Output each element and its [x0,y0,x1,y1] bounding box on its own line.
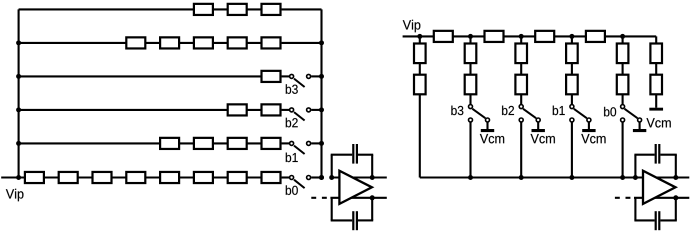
resistor (row 5, #4) [262,138,281,149]
resistor (row 2, #3) [194,37,213,48]
wire: termination branch down [655,36,657,107]
switch b1: right contact [307,141,311,145]
switch b3: lever [294,79,305,87]
resistor (branch b0, lower) [617,75,629,95]
op-amp U2: dashed inverting input line [615,197,620,199]
wire: branch b0 vertical [622,36,624,105]
label b0 [286,185,298,195]
switch b2: common contact [519,105,523,109]
wire: b1 Vcm stem [588,122,590,129]
switch b3: left contact [290,74,294,78]
label b2 [286,118,298,128]
capacitor (bottom feedback, U1): right wire [358,219,373,221]
resistor (row 2, #2) [160,37,179,48]
capacitor (top feedback, U1): left wire [331,155,333,178]
resistor (branch b3, lower) [465,75,477,95]
resistor (termination branch, lower) [650,75,662,95]
wire: switch b2 to right bus [311,109,321,111]
capacitor (bottom feedback, U1): plates [352,211,354,230]
label b3 [286,84,298,94]
wire: row to right bus [282,8,322,10]
switch b3: common contact [469,105,473,109]
label Vcm (b2) [531,134,555,143]
junction: top rail branch 3 [519,34,524,39]
resistor (row 1, #3) [262,4,281,15]
switch b3: output contact [469,118,473,122]
op-amp U2: triangle [643,171,676,204]
switch b2: lever [294,112,305,120]
wire: b0 Vcm stem [639,122,641,129]
junction: top rail branch 4 [569,34,574,39]
switch b2: output contact [519,118,523,122]
label b2 [502,106,514,116]
resistor (row 4, #1) [228,104,247,115]
switch b0: output contact [621,118,625,122]
junction: left bus row 5 [16,141,21,146]
resistor (row 5, #2) [194,138,213,149]
wire: top rail [403,35,657,37]
wire: switch b0 to right bus [311,176,321,178]
wire: row 1 rail [19,8,282,10]
label b3 [451,106,463,116]
junction: right bus to U1 input [319,175,324,180]
junction: top rail branch 5 [620,34,625,39]
label Vip (left circuit input) [6,189,24,201]
junction: U2 top output tap [673,175,678,180]
wire: switch b3 to right bus [311,75,321,77]
resistor (row 6, #2) [59,172,78,183]
junction: left bus row 4 [16,107,21,112]
op-amp U2: top output/input line [634,176,689,178]
label Vcm (b0) [646,118,670,127]
op-amp U1: dashed inverting input line [311,197,316,199]
junction: U1 bottom output tap [370,195,375,200]
op-amp U1: triangle [339,171,372,204]
capacitor (bottom feedback, U2): plates [655,211,657,230]
switch b0: common contact [621,105,625,109]
resistor (series R, #1) [434,31,453,42]
resistor (row 4, #2) [262,104,281,115]
switch b0: Vcm contact [638,118,642,122]
junction: top rail branch 1 [417,34,422,39]
resistor (row 1, #2) [228,4,247,15]
capacitor (bottom feedback, U2): right wire [660,219,676,221]
switch b3: right contact [307,74,311,78]
resistor (series R, #4) [586,31,605,42]
label b1 [286,153,298,163]
wire: left vertical bus [18,9,20,177]
resistor (branch 2R-term-left, upper) [414,44,426,64]
resistor (termination branch, upper) [650,44,662,64]
wire: b3 Vcm stem [486,122,488,129]
resistor (row 6, #5) [160,172,179,183]
resistor (row 6, #7) [228,172,247,183]
capacitor (top feedback, U2): left wire [634,155,636,178]
junction: right bus row 4 [319,107,324,112]
Vcm terminal bar (b0) [633,129,646,132]
junction: bottom rail branch b3 [468,175,473,180]
wire: switch b1 to right bus [311,142,321,144]
op-amp U1: top output/input line [331,176,387,178]
resistor (branch 2R-term-left, lower) [414,75,426,95]
Vcm terminal bar (termination) [649,108,663,111]
switch b1: wire to left contact [282,142,289,144]
label b1 [553,106,565,116]
label b0 [604,107,616,117]
switch b0: lever [294,180,305,188]
resistor (row 5, #1) [160,138,179,149]
wire: row 4 rail [19,109,282,111]
junction: right bus row 5 [319,141,324,146]
switch b0: wire to left contact [282,176,289,178]
resistor (branch b2, upper) [515,44,527,64]
switch b1: Vcm contact [587,118,591,122]
switch b1: common contact [570,105,574,109]
wire: b2 Vcm stem [537,122,539,129]
resistor (row 1, #1) [194,4,213,15]
wire: bottom line to op-amp U2 [634,197,689,199]
switch b3: wire to left contact [282,75,289,77]
wire: branch b2 vertical [520,36,522,105]
resistor (row 3, #1) [262,71,281,82]
wire: row to right bus [282,42,322,44]
wire: row 6 rail [1,176,281,178]
resistor (row 6, #4) [126,172,145,183]
junction: U2 bottom output tap [673,195,678,200]
Vcm terminal bar (b3) [481,129,494,132]
wire: row 2 rail [19,42,282,44]
resistor (row 2, #1) [126,37,145,48]
junction: left bus row 6 [16,175,21,180]
switch b2: lever [523,109,536,118]
wire: right vertical bus [320,9,322,177]
switch b0: right contact [307,176,311,180]
resistor (row 6, #1) [25,172,44,183]
switch b1: output contact [570,118,574,122]
switch b3: Vcm contact [486,118,490,122]
resistor (row 6, #3) [93,172,112,183]
junction: U1 + input tap [329,175,334,180]
junction: top rail branch 2 [468,34,473,39]
Vcm terminal bar (b1) [582,129,595,132]
resistor (row 6, #6) [194,172,213,183]
switch b2: Vcm contact [536,118,540,122]
switch b3: lever [472,109,485,118]
capacitor (top feedback, U2): right wire [660,154,676,156]
junction: left bus row 2 [16,40,21,45]
resistor (branch b3, upper) [465,44,477,64]
junction: right bus row 6 [319,175,324,180]
capacitor (top feedback, U1): plates [352,144,354,164]
switch b1: left contact [290,141,294,145]
wire: bottom line to op-amp U1 [330,197,386,199]
wire: row 5 rail [19,142,282,144]
switch b0: lever [625,109,638,118]
junction: left bus row 3 [16,74,21,79]
junction: bottom rail branch b1 [569,175,574,180]
switch b0: left contact [290,176,294,180]
resistor (row 2, #4) [228,37,247,48]
switch b2: wire to left contact [282,109,289,111]
resistor (branch b1, lower) [566,75,578,95]
capacitor (bottom feedback, U1): left wire [331,198,333,221]
junction: right bus row 3 [319,74,324,79]
junction: right bus row 2 [319,40,324,45]
junction: bottom rail branch b2 [519,175,524,180]
label Vip (right circuit input) [403,20,421,32]
switch b1: lever [294,146,305,154]
capacitor (bottom feedback, U2): left wire [634,198,636,221]
resistor (branch b2, lower) [515,75,527,95]
capacitor (top feedback, U2): plates [655,144,657,164]
junction: U2 + input tap [633,175,638,180]
label Vcm (b3) [480,134,504,143]
Vcm terminal bar (b2) [532,129,545,132]
resistor (row 2, #5) [262,37,281,48]
resistor (series R, #2) [485,31,504,42]
wire: row 3 rail [19,75,282,77]
resistor (branch b0, upper) [617,44,629,64]
junction: bottom rail branch b0 [620,175,625,180]
resistor (series R, #3) [535,31,554,42]
switch b2: right contact [307,108,311,112]
wire: bottom rail [419,36,421,177]
wire: branch b3 vertical [469,36,471,105]
resistor (branch b1, upper) [566,44,578,64]
capacitor (top feedback, U1): right wire [358,154,373,156]
resistor (row 6, #8) [262,172,281,183]
resistor (row 5, #3) [228,138,247,149]
junction: U1 top output tap [370,175,375,180]
label Vcm (b1) [581,134,605,143]
switch b1: lever [574,109,587,118]
wire: branch b1 vertical [571,36,573,105]
switch b2: left contact [290,108,294,112]
